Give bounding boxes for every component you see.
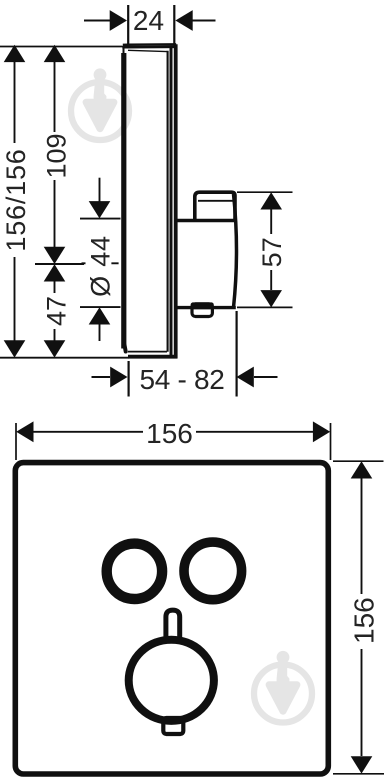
- svg-text:156: 156: [349, 597, 380, 644]
- svg-text:Ø 44: Ø 44: [85, 235, 115, 297]
- svg-text:47: 47: [41, 296, 71, 326]
- svg-text:156: 156: [146, 418, 193, 449]
- svg-text:57: 57: [257, 237, 287, 267]
- svg-text:109: 109: [41, 133, 71, 178]
- svg-text:24: 24: [133, 5, 164, 36]
- svg-text:54 - 82: 54 - 82: [139, 364, 224, 395]
- svg-text:156/156: 156/156: [1, 148, 31, 251]
